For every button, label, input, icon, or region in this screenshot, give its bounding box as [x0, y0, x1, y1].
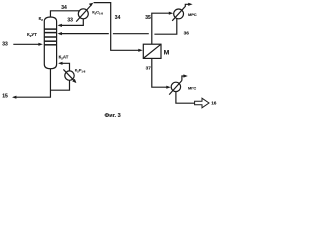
- wire: retentate line 35 from M up to MPC: [152, 13, 171, 44]
- reboiler K2P18 utility diagonal arrow: [63, 69, 75, 82]
- svg-text:МРС: МРС: [188, 12, 197, 17]
- arrowheads: [12, 3, 193, 99]
- block arrow product 16: [195, 98, 209, 108]
- wire: condensate to reflux, line 33: [59, 19, 83, 26]
- svg-text:МГС: МГС: [188, 85, 196, 90]
- arrow: into MPC: [169, 12, 173, 15]
- wire: reboiler loop draw-off: [50, 80, 69, 90]
- membrane module M diagonal: [143, 44, 161, 58]
- column K2 trays: [44, 29, 56, 45]
- arrow: MGC utility outlet tip: [183, 74, 187, 77]
- arrow: feed into column: [38, 43, 42, 46]
- cooler MPC utility diagonal with bent outlet arrow: [172, 4, 190, 21]
- arrow: MPC utility outlet tip: [188, 3, 192, 6]
- svg-text:16: 16: [211, 101, 217, 106]
- arrow: reflux into column: [58, 24, 62, 27]
- reboiler K2P18 circle: [65, 71, 74, 80]
- wire: feed line 33 into column: [13, 43, 41, 45]
- arrow: reboiler return tip: [58, 62, 62, 65]
- svg-text:34: 34: [61, 5, 67, 11]
- svg-text:Фиг. 3: Фиг. 3: [105, 113, 121, 119]
- arrow: reboiler utility tip: [72, 79, 76, 83]
- arrow: bottoms product 15: [12, 96, 16, 99]
- svg-text:15: 15: [2, 94, 8, 100]
- wire: bottoms line 15 from column: [14, 69, 51, 98]
- svg-text:33: 33: [67, 18, 73, 24]
- condenser K2C18 utility diagonal arrow: [76, 4, 92, 21]
- svg-text:37: 37: [146, 65, 152, 70]
- cooler MPC circle: [174, 9, 184, 19]
- wire: permeate line 37 from M down to MGC: [152, 58, 168, 87]
- arrow: into MGC: [166, 86, 170, 89]
- svg-text:М: М: [164, 49, 170, 56]
- condenser K2C18 circle: [78, 9, 88, 19]
- cooler MGC utility diagonal with bent outlet arrow: [169, 81, 182, 95]
- arrow: condenser utility tip: [89, 3, 94, 6]
- arrow: recycle into column: [58, 32, 62, 35]
- wire: overhead line 34 column top to condenser: [50, 11, 79, 17]
- wire: distillate line from condenser to membrane M: [94, 3, 141, 51]
- wire: recycle line 36 from MPC back to column (with crossing breaks): [59, 33, 109, 35]
- svg-text:33: 33: [2, 41, 8, 47]
- wire: MGC outlet to product 16: [176, 92, 195, 104]
- membrane module M box: [143, 44, 161, 58]
- column K2 vessel shell: [44, 17, 56, 69]
- wire: reboiler return into column: [60, 63, 70, 71]
- arrow: into membrane M: [138, 49, 142, 52]
- svg-text:35: 35: [145, 15, 151, 21]
- svg-text:36: 36: [184, 31, 190, 36]
- svg-text:34: 34: [115, 15, 121, 21]
- cooler MGC circle: [171, 82, 180, 91]
